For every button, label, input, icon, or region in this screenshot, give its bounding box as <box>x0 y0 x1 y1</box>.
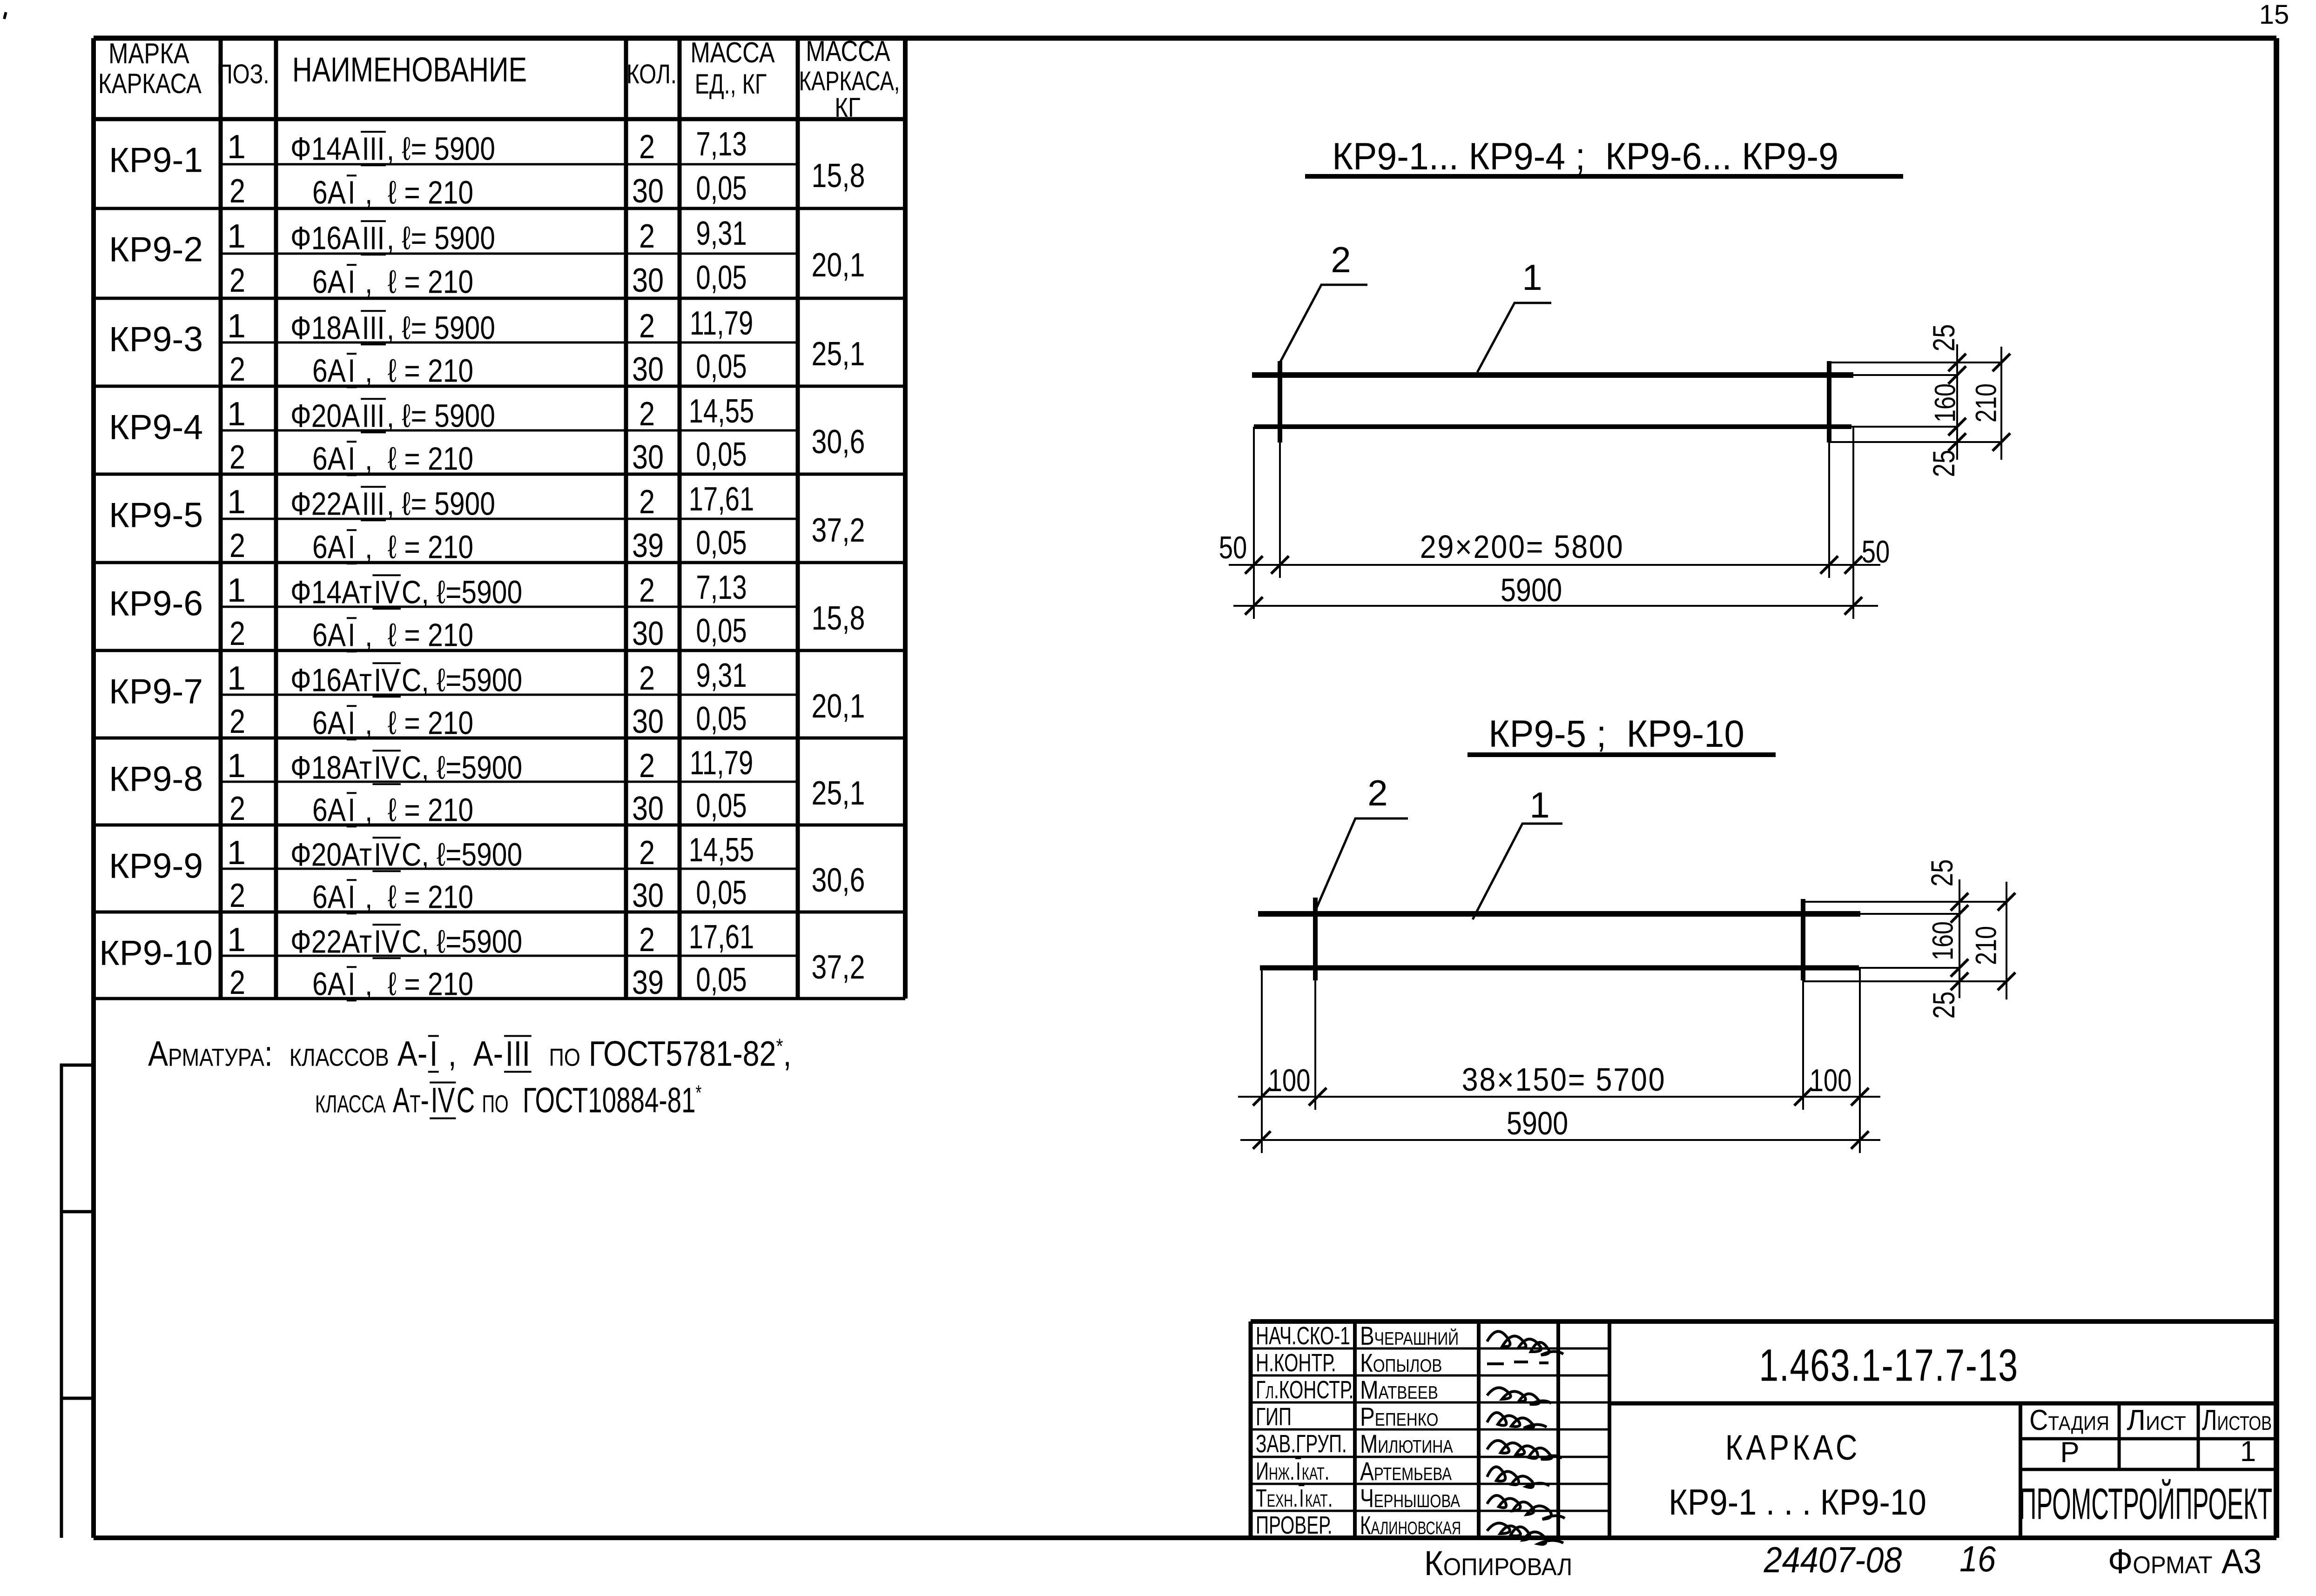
diagram 1 dim 50 right <box>1862 536 1890 568</box>
table column line 3 <box>624 38 628 999</box>
mass of КР9-1 <box>812 159 865 193</box>
diagram 2 title <box>1488 715 1744 753</box>
mass of КР9-8 <box>812 777 865 810</box>
title block role НАЧ.СКО-1 <box>1256 1323 1350 1348</box>
diagram 1 stirrup bottom extension <box>1829 441 2001 443</box>
diagram 2 tick 210 bottom <box>1998 972 2015 990</box>
diagram 1 dim 29x200=5800 <box>1420 530 1624 563</box>
diagram 1 left stirrup extension down <box>1279 443 1281 578</box>
table row КР9-3 mark <box>109 322 203 357</box>
table row КР9-5 mark <box>109 498 203 533</box>
table sub-row divider group 9 <box>221 868 798 870</box>
diagram 1 leader line pos 1 <box>1477 303 1551 372</box>
table column line 2 <box>274 38 278 999</box>
diagram 1 leader label 1 <box>1522 259 1542 295</box>
diagram 1 chord extension <box>1851 426 1957 428</box>
signature scribble row 7 <box>1487 1495 1565 1519</box>
diagram 2 vert dim tick <box>1951 972 1968 990</box>
mass of КР9-5 <box>812 514 865 547</box>
diagram 2 stirrup top extension <box>1803 901 2006 903</box>
title block signature row line <box>1251 1510 1609 1512</box>
diagram 2 dim line 5900 <box>1240 1139 1880 1141</box>
mass of КР9-7 <box>812 690 865 723</box>
signature scribble row 4 <box>1487 1413 1547 1428</box>
number 16 <box>1959 1541 1996 1577</box>
title block left border <box>1249 1321 1253 1538</box>
diagram 1 dim 5900 <box>1501 574 1562 606</box>
page number 15 <box>2259 1 2289 28</box>
table row КР9-2 mark <box>109 232 203 267</box>
diagram 2 bar extension <box>1860 913 1959 915</box>
signature scribble row 6 <box>1487 1467 1549 1488</box>
table row group line 6 <box>94 649 905 652</box>
table sub-row divider group 4 <box>221 429 798 432</box>
header Поз. <box>216 61 269 88</box>
table sub-row divider group 8 <box>221 781 798 783</box>
diagram 2 leader label 1 <box>1529 787 1549 823</box>
diagram 2 dim tick <box>1851 1088 1869 1106</box>
signature scribble row 8 <box>1487 1523 1563 1544</box>
signature scribble row 3 <box>1487 1388 1551 1404</box>
title block signature row line <box>1251 1375 1609 1377</box>
diagram 2 dim tick <box>1794 1088 1812 1106</box>
diagram 1 tick 5900 L <box>1245 597 1263 615</box>
table row group line 2 <box>94 297 905 300</box>
diagram 2 dim tick <box>1253 1088 1271 1106</box>
stadia value Р <box>2060 1438 2079 1467</box>
diagram 1 bottom chord bar <box>1254 424 1851 429</box>
diagram 1 dim 25 top <box>1928 324 1959 352</box>
table row group line 8 <box>94 824 905 827</box>
sheet frame left border <box>91 38 96 1538</box>
table row group line 1 <box>94 207 905 210</box>
diagram 1 dim 210 <box>1972 383 2001 422</box>
title КР9-1...КР9-10 <box>1669 1484 1926 1520</box>
diagram 1 tick 210 bottom <box>1993 433 2010 451</box>
listov value 1 <box>2240 1437 2256 1466</box>
diagram 1 dim 25 bottom <box>1928 450 1959 477</box>
stadia column line 1 <box>2118 1403 2121 1469</box>
diagram 1 vert dim line 25-160-25 <box>1956 344 1958 460</box>
table row group line 3 <box>94 385 905 388</box>
table row КР9-4 mark <box>109 410 203 445</box>
header Листов <box>2202 1406 2272 1435</box>
title block name Репенко <box>1360 1404 1438 1430</box>
title block name Матвеев <box>1360 1377 1438 1403</box>
mass of КР9-6 <box>812 602 865 635</box>
diagram 2 right stirrup <box>1801 899 1805 980</box>
title block signature row line <box>1251 1428 1609 1431</box>
diagram 1 title underline <box>1305 174 1903 179</box>
note line 1 armature classes <box>148 1035 792 1073</box>
diagram 1 vert dim tick <box>1948 354 1966 371</box>
signature scribble row 5 <box>1487 1441 1562 1459</box>
table sub-row divider group 6 <box>221 606 798 608</box>
table row КР9-1 mark <box>109 143 203 178</box>
signature scribble row 1 <box>1487 1331 1563 1355</box>
diagram 1 dim tick <box>1820 556 1838 574</box>
header Масса каркаса кг <box>806 37 890 66</box>
diagram 1 vert dim tick <box>1948 418 1966 436</box>
diagram 2 right stirrup extension down <box>1802 980 1804 1110</box>
label Копировал <box>1424 1546 1572 1581</box>
title block role ПРОВЕР. <box>1256 1513 1333 1538</box>
sheet frame right border <box>2274 38 2279 1538</box>
title block signature row line <box>1251 1456 1609 1458</box>
table column line 4 <box>678 38 682 999</box>
diagram 1 tick 210 top <box>1993 354 2010 371</box>
diagram 2 dim 100 right <box>1810 1065 1852 1096</box>
table row КР9-7 mark <box>109 674 203 709</box>
number 24407-08 <box>1764 1542 1902 1578</box>
diagram 1 stirrup top extension <box>1829 362 2001 363</box>
diagram 1 longitudinal bar pos 1 top <box>1252 372 1853 378</box>
mass of КР9-2 <box>812 248 865 282</box>
diagram 2 vert dim line 25-160-25 <box>1959 879 1960 998</box>
table top border <box>94 36 905 41</box>
diagram 2 vert dim line 210 <box>2006 882 2007 999</box>
title block name Чернышова <box>1360 1485 1460 1511</box>
diagram 1 vert dim tick <box>1948 366 1966 384</box>
diagram 2 leader label 2 <box>1367 775 1387 811</box>
table row group line 5 <box>94 561 905 564</box>
diagram 1 right stirrup extension down <box>1828 443 1830 578</box>
diagram 1 dim tick <box>1245 556 1263 574</box>
table left border <box>91 38 96 999</box>
table header bottom line <box>94 117 905 121</box>
diagram 2 dim 38x150=5700 <box>1462 1063 1666 1096</box>
sheet frame bottom border <box>94 1536 2276 1540</box>
diagram 1 dim tick <box>1271 556 1289 574</box>
diagram 2 tick 5900 L <box>1253 1131 1271 1149</box>
title block signature column line <box>1353 1321 1357 1538</box>
title block role Н.КОНТР. <box>1256 1350 1336 1375</box>
title block line under document number <box>1609 1402 2276 1406</box>
diagram 2 tick 210 top <box>1998 893 2015 911</box>
diagram 2 title underline <box>1468 752 1776 757</box>
table right border <box>903 38 908 999</box>
diagram 2 left stirrup extension down <box>1314 980 1316 1110</box>
diagram 1 right chord-end extension down <box>1852 427 1854 619</box>
diagram 1 vert dim tick <box>1948 433 1966 451</box>
table sub-row divider group 3 <box>221 342 798 344</box>
title block signature row line <box>1251 1348 1609 1350</box>
header Масса ед кг <box>690 39 774 67</box>
table column line 1 <box>219 38 223 999</box>
header Стадия <box>2029 1406 2109 1435</box>
stadia header underline <box>2020 1437 2276 1441</box>
title block role ГИП <box>1256 1404 1292 1429</box>
table row КР9-10 mark <box>99 936 213 971</box>
diagram 2 vert dim tick <box>1951 905 1968 923</box>
title block signature row line <box>1251 1402 1609 1404</box>
diagram 1 dim line 29x200 <box>1229 564 1880 566</box>
diagram 2 left chord-end extension down <box>1261 968 1263 1153</box>
note line 2 <box>315 1081 701 1119</box>
title block role ЗАВ.ГРУП. <box>1256 1431 1347 1456</box>
table sub-row divider group 5 <box>221 518 798 520</box>
diagram 2 right chord-end extension down <box>1859 968 1861 1153</box>
table row group line 4 <box>94 473 905 476</box>
diagram 1 dim 160 <box>1931 383 1960 422</box>
diagram 1 vert dim line 210 <box>2000 347 2002 460</box>
diagram 2 dim 100 left <box>1268 1065 1311 1096</box>
diagram 2 vert dim tick <box>1951 893 1968 911</box>
title block role Гл.КОНСТР. <box>1256 1377 1353 1402</box>
mass of КР9-10 <box>812 951 865 984</box>
diagram 2 dim 160 <box>1929 921 1958 960</box>
table row group line 7 <box>94 737 905 740</box>
diagram 1 leader label 2 <box>1331 241 1351 278</box>
title block role Техн.I кат. <box>1256 1485 1333 1512</box>
diagram 1 left stirrup pos 2 <box>1278 361 1282 443</box>
title block name Копылов <box>1360 1350 1442 1376</box>
title block signature column line <box>1608 1321 1611 1538</box>
diagram 2 leader line pos 2 <box>1316 818 1408 910</box>
table row КР9-9 mark <box>109 849 203 884</box>
stadia column line 2 <box>2197 1403 2200 1469</box>
diagram 2 dim 210 <box>1972 926 2001 965</box>
mass of КР9-4 <box>812 425 865 459</box>
title block name Вчерашний <box>1360 1323 1459 1349</box>
sheet frame top border <box>94 36 2276 41</box>
filing tab boxes left margin <box>61 1065 94 1538</box>
title block role Инж.I кат. <box>1256 1458 1329 1485</box>
document number 1.463.1-17.7-13 <box>1759 1343 2019 1388</box>
title block signature column line <box>1556 1321 1560 1538</box>
diagram 1 leader line pos 2 <box>1279 285 1367 363</box>
title block name Калиновская <box>1360 1512 1461 1538</box>
diagram 1 title <box>1332 138 1838 176</box>
table row group line 10 <box>94 997 905 1000</box>
title block name Артемьева <box>1360 1458 1452 1484</box>
diagram 1 bar extension <box>1853 374 1957 376</box>
table sub-row divider group 7 <box>221 694 798 696</box>
mass of КР9-9 <box>812 864 865 897</box>
title block vertical line right of name cell <box>2019 1403 2022 1538</box>
title block name Милютина <box>1360 1431 1453 1457</box>
stadia values underline <box>2020 1468 2276 1471</box>
title КАРКАС <box>1725 1430 1861 1466</box>
table sub-row divider group 1 <box>221 163 798 166</box>
diagram 1 left chord-end extension down <box>1253 427 1255 619</box>
diagram 1 dim tick <box>1845 556 1862 574</box>
mass of КР9-3 <box>812 337 865 371</box>
diagram 1 tick 5900 R <box>1845 597 1862 615</box>
stray ink mark top left <box>3 12 7 19</box>
diagram 2 chord extension <box>1859 967 1959 969</box>
table sub-row divider group 10 <box>221 955 798 957</box>
diagram 2 tick 5900 R <box>1851 1131 1869 1149</box>
label Формат А3 <box>2108 1544 2262 1579</box>
table row group line 9 <box>94 911 905 914</box>
header Кол. <box>626 61 677 88</box>
diagram 2 longitudinal bar pos 1 top <box>1258 911 1860 917</box>
table row КР9-6 mark <box>109 586 203 621</box>
diagram 2 bottom chord bar <box>1260 966 1859 971</box>
signature scribble row 2 <box>1487 1362 1548 1364</box>
title block signature row line <box>1251 1483 1609 1485</box>
diagram 1 dim 50 left <box>1219 532 1247 563</box>
diagram 2 dim 25 bottom <box>1928 992 1959 1019</box>
ПРОМСТРОЙПРОЕКТ logo <box>2019 1482 2272 1527</box>
diagram 2 dim tick <box>1309 1088 1326 1106</box>
table column line 5 <box>796 38 800 999</box>
diagram 1 right stirrup <box>1827 361 1831 443</box>
header Марка каркаса <box>108 40 189 68</box>
header Лист <box>2127 1406 2186 1435</box>
diagram 2 leader line pos 1 <box>1473 824 1562 919</box>
header Наименование <box>292 53 527 87</box>
diagram 2 dim 5900 <box>1507 1107 1568 1140</box>
table row КР9-8 mark <box>109 762 203 797</box>
title block top border <box>1251 1319 2276 1324</box>
diagram 2 vert dim tick <box>1951 959 1968 977</box>
diagram 2 dim 25 top <box>1926 859 1957 887</box>
diagram 1 dim line 5900 <box>1233 605 1878 607</box>
table sub-row divider group 2 <box>221 253 798 255</box>
diagram 2 left stirrup pos 2 <box>1313 898 1318 980</box>
diagram 2 dim line 38x150 <box>1238 1096 1880 1098</box>
title block signature column line <box>1477 1321 1481 1538</box>
diagram 2 stirrup bottom extension <box>1803 980 2006 982</box>
